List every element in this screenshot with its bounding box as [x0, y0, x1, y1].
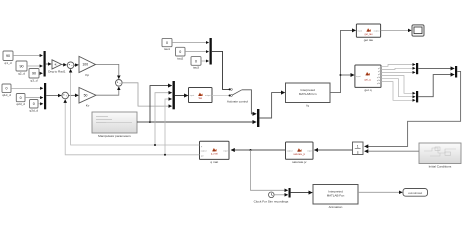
svg-text:Activate control: Activate control — [227, 99, 248, 103]
wire params to mux3 input 1 — [150, 86, 172, 122]
junction q feedback tap — [154, 144, 156, 146]
mux2 (desired velocities) — [44, 83, 46, 109]
wire q2_d to mux1 — [27, 65, 43, 67]
wire qd feedback tap to mux3 input 3 — [165, 99, 172, 155]
mux1 (desired positions) — [44, 51, 46, 77]
wire Manipulator parameters output — [137, 121, 150, 123]
wire get_q q2d to mux7 — [381, 79, 415, 97]
svg-text:Manipulator parameters: Manipulator parameters — [98, 134, 131, 138]
svg-text:q3d_d: q3d_d — [29, 108, 38, 112]
svg-text:tau2: tau2 — [177, 56, 183, 60]
junction params line — [149, 121, 151, 123]
integrator 1/s — [353, 142, 364, 155]
MATLAB function block get_tau — [356, 24, 380, 42]
svg-text:Animation: Animation — [329, 205, 343, 209]
svg-text:q1_d: q1_d — [5, 61, 12, 65]
mux4 (zero torques) — [210, 38, 212, 65]
manual switch Activate control — [227, 89, 248, 104]
wire sum2 to Kv — [69, 94, 79, 96]
wire switch output to mux5 input 1 — [242, 90, 256, 114]
constant q3_d (90) — [29, 69, 39, 83]
MATLAB function block saturate_jv — [286, 142, 314, 164]
svg-text:output: output — [374, 30, 380, 33]
svg-text:q mat: q mat — [210, 160, 218, 164]
mux7 (velocities) — [416, 91, 418, 102]
mux9 (time + state) — [289, 188, 291, 198]
sum junction sum3 (PD torque) — [116, 80, 123, 87]
svg-text:input: input — [358, 30, 363, 33]
wire tau3 to mux4 — [201, 60, 209, 62]
wire clock to mux9 — [274, 194, 288, 196]
wire get_q q3 to mux6 — [381, 71, 415, 73]
wire get_q q3d to mux7 — [381, 82, 415, 101]
constant q2d_d (0) — [16, 94, 25, 107]
mux8 (state vector) — [455, 66, 457, 78]
svg-text:input: input — [223, 149, 228, 152]
wire mux5 to fq — [259, 93, 284, 118]
junction qd feedback tap — [164, 154, 166, 156]
svg-text:q1d: q1d — [377, 77, 380, 79]
wire Initial Conditions to integrator IC input — [365, 150, 419, 152]
svg-text:0: 0 — [179, 50, 181, 54]
svg-text:50: 50 — [84, 93, 88, 97]
gain Deg to Rad1 — [48, 60, 66, 74]
wire q3_d to mux1 — [39, 72, 43, 74]
gain Kp (100) — [79, 56, 96, 77]
wire integrator to saturate_jv — [314, 149, 352, 151]
svg-text:0: 0 — [33, 102, 35, 106]
clock Clock For Sim recordings — [254, 192, 289, 204]
svg-text:100: 100 — [82, 63, 88, 67]
mux6 (positions) — [416, 63, 418, 74]
svg-text:out.simout: out.simout — [408, 191, 422, 195]
svg-text:get_q: get_q — [365, 78, 372, 81]
wire tau2 to mux4 — [185, 51, 209, 53]
svg-text:get_tau: get_tau — [365, 33, 374, 36]
svg-text:fq: fq — [306, 103, 309, 107]
svg-text:saturate jv: saturate jv — [292, 160, 307, 164]
switch lower contact — [229, 95, 231, 97]
constant q1d_d (0) — [2, 84, 11, 97]
wire qd feedback to sum2 — [65, 100, 199, 155]
constant tau2 (0) — [176, 47, 186, 60]
wire mux3 to Sat — [175, 95, 188, 97]
svg-text:0: 0 — [166, 41, 168, 45]
wire params to mux5 input 2 — [150, 121, 256, 123]
svg-text:0: 0 — [195, 59, 197, 63]
outport out.simout — [403, 189, 428, 197]
junction state line — [340, 74, 342, 76]
svg-text:s: s — [357, 150, 359, 154]
wire get_q q1 to mux6 — [381, 65, 415, 67]
svg-text:output: output — [205, 94, 211, 97]
wire q2d_d to mux2 — [25, 97, 43, 99]
wire q1_d to mux1 — [13, 55, 43, 57]
wire Animation to out.simout — [358, 191, 402, 193]
wire q1d_d to mux2 — [11, 87, 43, 89]
wire sum1 to Kp — [74, 64, 78, 66]
constant tau1 (0) — [162, 38, 172, 51]
subsystem Manipulator parameters — [92, 112, 137, 138]
wire mux4 to switch upper input — [212, 51, 229, 89]
svg-text:Initial Conditions: Initial Conditions — [429, 165, 452, 169]
svg-text:MATLAB Fcn: MATLAB Fcn — [327, 193, 345, 197]
wire mux8 state loop to integrator input — [365, 71, 461, 146]
wire mux6 to mux8 — [418, 67, 454, 69]
mux5 (torque + params) — [257, 109, 259, 127]
wire Kp to sum3 top — [96, 64, 119, 78]
svg-text:Clock For Sim recordings: Clock For Sim recordings — [254, 200, 289, 204]
svg-text:q2_d: q2_d — [18, 71, 25, 75]
svg-text:q1d_d: q1d_d — [2, 93, 11, 97]
sum junction sum1 (position error) — [67, 62, 74, 69]
svg-text:0: 0 — [20, 96, 22, 100]
svg-text:tau3: tau3 — [193, 66, 199, 70]
switch upper contact — [229, 88, 231, 90]
svg-text:get q: get q — [365, 88, 372, 92]
svg-text:90: 90 — [32, 72, 36, 76]
wire get_tau to scope — [381, 29, 412, 31]
wire q feedback to sum1 — [71, 69, 200, 145]
wire Kv to sum3 bottom — [96, 87, 119, 95]
sum junction sum2 (velocity error) — [62, 92, 69, 99]
gain Kv (50) — [79, 88, 96, 108]
wire sum3 output to mux3 input 4 — [122, 83, 172, 106]
MATLAB function block q_mat — [200, 141, 230, 164]
MATLAB function block Sat — [189, 88, 213, 103]
svg-text:Kv: Kv — [86, 104, 90, 108]
wire tau1 to mux4 — [172, 42, 209, 44]
svg-text:input: input — [356, 75, 361, 78]
svg-text:saturate_jv: saturate_jv — [293, 153, 305, 156]
svg-text:q3_d: q3_d — [31, 78, 38, 82]
wire q3d_d to mux2 — [38, 103, 43, 105]
block fq (Interpreted MATLAB Fcn) — [286, 83, 331, 107]
wire q feedback tap to mux3 input 2 — [155, 93, 172, 145]
svg-text:q2d: q2d — [377, 80, 380, 82]
wire Sat to switch lower input — [212, 95, 229, 97]
svg-text:-K-: -K- — [54, 63, 58, 67]
svg-text:q2: q2 — [378, 71, 380, 73]
mux3 (controller signals) — [173, 81, 175, 109]
wire saturate_jv to q_mat — [231, 149, 285, 151]
svg-text:input: input — [190, 94, 195, 97]
wire mux1 to Deg to Rad1 — [46, 63, 52, 65]
svg-text:0: 0 — [6, 87, 8, 91]
svg-text:q_mat: q_mat — [211, 153, 218, 156]
wire state to get_q — [341, 74, 355, 76]
wire mux9 to Animation — [291, 192, 313, 194]
wire state branch to mux9 — [251, 150, 288, 190]
wire get_q q2 to mux6 — [381, 68, 415, 69]
svg-text:90: 90 — [20, 64, 24, 68]
wire fq output to get_tau — [330, 30, 356, 92]
scope tau — [412, 25, 424, 36]
constant q1_d (90) — [3, 51, 13, 65]
wire Deg to Rad1 to sum1 — [62, 64, 67, 66]
svg-text:Kp: Kp — [85, 73, 89, 77]
constant q3d_d (0) — [29, 100, 38, 113]
svg-text:90: 90 — [6, 54, 10, 58]
svg-text:q3d: q3d — [377, 83, 380, 85]
MATLAB function block get_q — [355, 65, 381, 92]
wire get_q q1d to mux7 — [381, 76, 415, 94]
svg-text:output: output — [287, 150, 293, 153]
svg-text:get tau: get tau — [364, 38, 374, 42]
wire mux2 to sum2 — [46, 95, 61, 97]
svg-text:input: input — [307, 150, 312, 153]
svg-text:Sat: Sat — [198, 97, 202, 100]
block Animation (Interpreted MATLAB Fcn) — [313, 185, 358, 209]
svg-text:Deg to Rad1: Deg to Rad1 — [48, 70, 66, 74]
svg-text:1: 1 — [357, 144, 359, 148]
svg-text:q2d_d: q2d_d — [16, 102, 25, 106]
subsystem Initial Conditions — [419, 143, 461, 169]
wire mux7 to mux8 — [418, 75, 454, 97]
junction saturated state — [250, 149, 252, 151]
svg-text:output: output — [201, 149, 207, 152]
svg-text:q3: q3 — [378, 74, 380, 76]
constant q2_d (90) — [16, 61, 27, 75]
svg-text:MATLAB Fcn: MATLAB Fcn — [299, 92, 317, 96]
svg-text:tau1: tau1 — [164, 47, 170, 51]
constant tau3 (0) — [191, 57, 201, 70]
svg-text:q1: q1 — [378, 68, 380, 70]
